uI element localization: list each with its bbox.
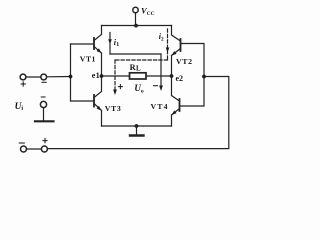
input terminal lower - xyxy=(21,146,27,152)
wire VT4 emitter down xyxy=(171,115,173,126)
wire xyxy=(27,148,42,150)
label - polarity upper input xyxy=(42,81,46,83)
input terminal upper + xyxy=(20,74,26,80)
svg-text:e2: e2 xyxy=(176,74,184,83)
current arrow i2 vertical dashed xyxy=(167,29,169,60)
wire VT2 collector xyxy=(172,26,181,42)
transistor VT1 xyxy=(93,38,95,49)
ground xyxy=(136,126,138,135)
current path i2 horizontal dashed xyxy=(115,59,168,61)
svg-text:e1: e1 xyxy=(92,71,100,80)
resistor RL xyxy=(130,73,147,79)
transistor VT4 xyxy=(172,76,180,101)
svg-text:Ui: Ui xyxy=(15,102,24,112)
current arrow i1 through RL down right side xyxy=(160,54,162,86)
label - polarity lower input xyxy=(19,142,24,144)
node e2 xyxy=(170,74,174,78)
svg-text:Uo: Uo xyxy=(134,83,144,94)
wire VT2 base xyxy=(181,44,205,77)
transistor VT3 xyxy=(94,76,102,98)
svg-text:VT4: VT4 xyxy=(151,102,169,111)
label + polarity lower input xyxy=(43,139,47,143)
label - mid xyxy=(41,96,45,98)
svg-text:VT1: VT1 xyxy=(80,54,96,63)
wire VT1 collector xyxy=(94,26,102,41)
label - of Uo xyxy=(154,85,158,87)
wire VT1 base xyxy=(71,43,95,45)
svg-text:i1: i1 xyxy=(114,38,119,48)
wire xyxy=(26,76,41,78)
label + polarity upper input xyxy=(21,82,25,86)
svg-text:i2: i2 xyxy=(159,32,164,42)
input terminal upper - xyxy=(41,74,47,80)
wire top rail xyxy=(102,25,172,27)
transistor VT2 xyxy=(180,39,182,51)
wire VT1 emitter to e1 xyxy=(101,53,103,76)
node right base junction xyxy=(202,75,206,79)
wire bottom return xyxy=(47,77,228,149)
svg-text:VT3: VT3 xyxy=(105,104,122,113)
input terminal lower + xyxy=(41,146,47,152)
node input junction xyxy=(69,75,73,79)
current arrow i1 vertical xyxy=(109,33,111,55)
wire Vcc stem xyxy=(135,13,137,26)
current arrow i2 through RL down left side dashed xyxy=(114,60,116,90)
node Vcc rail junction xyxy=(134,24,138,28)
ground reference terminal xyxy=(40,101,46,107)
wire input to bases xyxy=(47,76,71,78)
wire VT3 emitter down xyxy=(101,111,103,127)
node ground junction xyxy=(135,124,139,128)
label + of Uo xyxy=(118,85,122,89)
svg-text:RL: RL xyxy=(130,63,141,72)
wire RL left xyxy=(102,75,130,77)
node e1 xyxy=(100,74,104,78)
svg-text:VCC: VCC xyxy=(141,5,155,17)
svg-text:VT2: VT2 xyxy=(176,57,193,66)
wire VT2 emitter to e2 xyxy=(171,56,173,77)
wire RL right xyxy=(146,75,172,77)
Vcc terminal xyxy=(133,7,138,12)
current path i1 horizontal xyxy=(110,53,161,55)
wire bottom rail xyxy=(102,125,172,127)
wire left base column xyxy=(70,44,72,101)
